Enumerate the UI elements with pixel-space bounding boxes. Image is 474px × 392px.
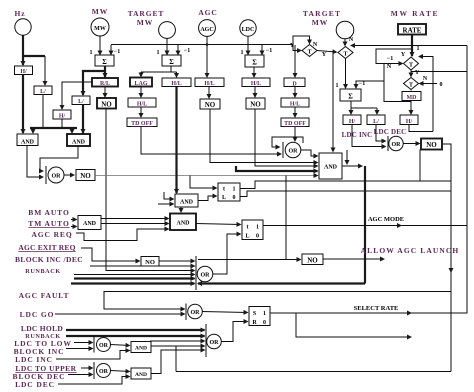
input circle TARGET MW 2 — [336, 21, 354, 39]
wire LDC GO to OR-D — [55, 313, 185, 315]
svg-text:LDC DEC: LDC DEC — [374, 128, 407, 136]
svg-text:−1: −1 — [184, 48, 190, 54]
wire bar into AND1 — [32, 128, 34, 133]
wire BLOCK INC DEC to OR-A — [90, 265, 195, 267]
svg-text:AND: AND — [21, 140, 35, 146]
svg-text:LDC: LDC — [242, 27, 255, 33]
wire LAG to H/L — [140, 87, 142, 98]
gate AND2 — [67, 134, 90, 146]
input circle TARGET MW — [159, 22, 176, 39]
block H/ a — [343, 115, 361, 125]
wire SR branch down out arrow — [296, 313, 411, 337]
svg-text:0: 0 — [256, 234, 259, 240]
wire NO ldc to AND big — [255, 109, 318, 166]
svg-text:t: t — [247, 225, 249, 231]
svg-text:0: 0 — [233, 195, 236, 201]
svg-text:T: T — [409, 63, 413, 69]
svg-text:NO: NO — [426, 141, 437, 149]
svg-text:LDC INC: LDC INC — [15, 355, 53, 364]
svg-text:AGC REQ: AGC REQ — [31, 230, 72, 239]
wire LDC INC up into AND6 — [56, 351, 130, 360]
svg-text:Hz: Hz — [15, 9, 26, 18]
wire circle 2 down to diamond T2 — [344, 39, 346, 46]
svg-text:ALLOW AGC LAUNCH: ALLOW AGC LAUNCH — [361, 246, 460, 255]
wire thick AGC mode bus down — [364, 166, 366, 284]
svg-text:0: 0 — [440, 82, 443, 88]
svg-text:MW RATE: MW RATE — [391, 9, 440, 18]
wire H/L to TD OFF — [140, 107, 142, 117]
block NO monitor — [97, 98, 116, 109]
wire LDC TO UPPER to OR-H — [81, 367, 93, 369]
svg-text:MW: MW — [312, 18, 328, 27]
wire MD down to H/ — [410, 101, 412, 115]
gate OR-A — [195, 256, 197, 290]
wire into NO6 — [198, 259, 301, 261]
block NO small — [141, 257, 159, 267]
wire D to H/L — [294, 87, 296, 98]
svg-text:LDC GO: LDC GO — [20, 310, 55, 319]
wire MW to sum — [99, 36, 101, 55]
svg-text:L/: L/ — [373, 119, 379, 125]
wire SR out and select rate tee — [270, 312, 451, 314]
block H/ b — [400, 115, 418, 125]
wire T3 to T4 — [410, 70, 412, 77]
input circle MW — [91, 18, 109, 36]
memory box1 up/down latch — [218, 183, 240, 201]
gate AND7 — [131, 368, 151, 379]
svg-text:N: N — [423, 76, 428, 82]
svg-text:AGC EXIT REQ: AGC EXIT REQ — [18, 243, 75, 252]
wire OR-C to AND big — [301, 150, 318, 156]
wire Hz down trunk — [22, 35, 24, 65]
gate OR-F — [387, 136, 389, 151]
block H/L first — [162, 78, 191, 87]
svg-text:TM AUTO: TM AUTO — [28, 219, 69, 228]
svg-text:Σ: Σ — [252, 59, 257, 67]
gate AND4 — [78, 216, 101, 230]
svg-text:OR: OR — [52, 174, 62, 180]
block LAG — [130, 78, 152, 87]
svg-text:NO: NO — [307, 257, 318, 265]
gate AND5 bold — [170, 214, 196, 231]
wire TD OFF long route to OR — [141, 127, 281, 155]
wire T2 out down to sum4 — [345, 59, 347, 89]
wire AGC FAULT thick to OR-A — [71, 282, 195, 284]
svg-text:Σ: Σ — [102, 58, 107, 66]
switch diamond T2 — [338, 47, 353, 59]
svg-text:AND: AND — [180, 200, 194, 206]
svg-text:AND: AND — [72, 140, 86, 146]
wire to NO ldc — [254, 87, 256, 98]
svg-text:1: 1 — [256, 225, 259, 231]
svg-text:T: T — [409, 83, 413, 89]
wire OR-F to NO5 — [403, 143, 420, 145]
wire tee down to bottom bus — [175, 346, 177, 372]
wire target mw to sum2 — [166, 39, 168, 55]
block L/ (Hz low limit) — [34, 86, 52, 95]
wire RATE thick down to T3 — [411, 35, 413, 57]
wire feedback right of T3 — [419, 57, 433, 132]
svg-text:N: N — [313, 42, 318, 48]
svg-text:OR: OR — [210, 340, 220, 346]
svg-text:1: 1 — [241, 50, 244, 56]
svg-text:1: 1 — [157, 50, 160, 56]
block H/L ldc — [242, 78, 270, 87]
wire far right bus feedback into T2 — [351, 45, 467, 47]
wire T4 to MD — [410, 90, 412, 91]
svg-text:LDC DEC: LDC DEC — [15, 380, 55, 389]
wire thick input4 of AND big — [236, 166, 318, 171]
gate OR-D — [185, 304, 187, 321]
wire L/ down — [42, 95, 44, 129]
wire NO long line to AND input 5 — [95, 175, 318, 177]
svg-text:BM AUTO: BM AUTO — [28, 208, 69, 217]
block NO 5 — [421, 139, 442, 150]
wire AND6 out to OR-E — [151, 345, 205, 347]
gate AND3 small — [175, 194, 198, 207]
svg-text:H/: H/ — [406, 119, 413, 125]
svg-text:MW: MW — [137, 18, 153, 27]
svg-text:Y: Y — [415, 70, 420, 76]
wire H/ to AND — [22, 75, 24, 134]
wire H/ b feedback to T3 loop — [409, 125, 433, 132]
wire OR-E to R input of SR — [221, 322, 248, 342]
svg-text:−1: −1 — [114, 49, 120, 55]
svg-text:OR: OR — [289, 149, 299, 155]
wire feedback loop OR-C — [272, 137, 303, 147]
summer sum3 — [245, 55, 264, 67]
wire AND3 down into AND5 — [180, 207, 182, 212]
wire -1 feedback into sum1 — [110, 45, 112, 55]
svg-text:LAG: LAG — [134, 81, 147, 87]
svg-text:AND: AND — [324, 165, 338, 171]
wire trunk into D — [294, 45, 296, 77]
svg-text:L/: L/ — [78, 99, 84, 105]
svg-text:L: L — [222, 195, 226, 201]
block L/ second — [72, 96, 90, 105]
wire H/L to NO — [208, 87, 210, 99]
gate AND6 — [131, 342, 151, 353]
svg-text:MW: MW — [94, 26, 106, 32]
wire AGC MODE arrow overlay — [380, 225, 401, 227]
gate OR-H — [93, 362, 95, 379]
svg-text:OR: OR — [99, 369, 109, 375]
block RATE — [398, 24, 426, 35]
svg-text:TARGET: TARGET — [303, 9, 341, 18]
wire AND5 to box2 — [196, 224, 241, 225]
svg-text:AND: AND — [135, 346, 147, 352]
svg-text:OR: OR — [392, 142, 402, 148]
svg-text:RUNBACK: RUNBACK — [25, 268, 60, 275]
wire BLOCK INC to OR-G — [66, 348, 93, 350]
wire T3 tee right to far bus — [411, 71, 467, 73]
svg-text:−1: −1 — [387, 56, 393, 62]
wire L/ a to OR-F — [376, 125, 386, 142]
block NO after OR — [76, 170, 95, 181]
svg-text:SELECT RATE: SELECT RATE — [354, 305, 399, 312]
wire OR-E input 3 — [150, 340, 205, 342]
wire AGC down — [206, 37, 208, 78]
svg-text:MW: MW — [92, 7, 108, 16]
svg-text:1: 1 — [417, 46, 420, 52]
block H/ (Hz high limit) — [15, 66, 33, 75]
wire RATE loop into T3 -1 N input — [376, 49, 412, 64]
wire thick cross bar — [30, 127, 77, 129]
wire LDC HOLD thick to OR-E — [66, 329, 205, 331]
wire OR-H to AND7 — [111, 371, 130, 372]
wire BLOCK DEC to OR-H — [68, 374, 93, 376]
wire NO small to OR-A — [159, 260, 195, 262]
block H/ third — [53, 110, 71, 119]
svg-text:AGC MODE: AGC MODE — [368, 216, 404, 223]
wire H/ out to cross bar — [61, 119, 63, 128]
wire RUNBACK thick to OR-A — [74, 274, 195, 276]
wire AGC REQ route — [76, 229, 169, 241]
wire BM AUTO in — [71, 219, 77, 221]
svg-text:Y: Y — [322, 52, 327, 58]
wire AND4 to AND5 two lines — [101, 218, 169, 220]
wire AND7 out riser to OR-E — [151, 350, 205, 374]
svg-text:OR: OR — [99, 343, 109, 349]
svg-text:N: N — [387, 64, 392, 70]
wire far right bus — [451, 46, 467, 314]
wire NO long drop to OR gate below — [106, 109, 195, 271]
svg-text:OR: OR — [201, 273, 211, 279]
wire main horizontal trunk — [111, 44, 293, 46]
block NO6 — [302, 254, 323, 265]
svg-text:AGC: AGC — [200, 27, 213, 33]
svg-text:H/L: H/L — [137, 102, 147, 108]
svg-text:NO: NO — [80, 172, 91, 180]
wire tee from T line down into AND big top — [332, 52, 334, 151]
wire R/L to NO — [104, 87, 106, 98]
svg-text:0: 0 — [263, 320, 266, 326]
svg-text:AND: AND — [83, 221, 97, 227]
svg-text:Σ: Σ — [169, 58, 174, 66]
svg-text:R/L: R/L — [100, 81, 110, 87]
svg-text:OR: OR — [191, 310, 201, 316]
wire OR-D to SR latch — [202, 312, 248, 313]
svg-text:R: R — [252, 320, 257, 326]
wire allow agc launch bus — [450, 263, 452, 272]
wire box1 lower out bus — [240, 191, 451, 197]
svg-text:TARGET: TARGET — [128, 9, 165, 18]
wire OR to NO — [64, 174, 74, 176]
svg-text:Y: Y — [401, 52, 406, 58]
svg-text:H/: H/ — [59, 114, 66, 120]
wire NO6 allow agc launch arrow — [323, 258, 384, 260]
wire LDC down to sum3 — [247, 36, 249, 54]
svg-text:−1: −1 — [266, 48, 272, 54]
gate AND1 — [17, 134, 38, 146]
svg-text:LDC HOLD: LDC HOLD — [21, 324, 63, 333]
svg-text:1: 1 — [263, 311, 266, 317]
switch diamond T3 — [404, 57, 419, 70]
summer sum4 — [340, 89, 361, 101]
svg-text:AND: AND — [177, 221, 191, 227]
svg-text:−1: −1 — [359, 81, 365, 87]
gate OR-E — [205, 324, 207, 357]
svg-text:T: T — [307, 50, 311, 56]
wire RUNBACK 2 thick to OR-E — [66, 335, 205, 337]
svg-text:BLOCK INC /DEC: BLOCK INC /DEC — [15, 255, 83, 264]
svg-text:AND: AND — [135, 372, 147, 378]
svg-text:H/: H/ — [349, 119, 356, 125]
gate AND big — [319, 153, 342, 179]
wire -1 feedback into sum2 — [177, 45, 179, 55]
wire branch down to L/ — [44, 56, 46, 85]
block NO ldc — [246, 98, 265, 109]
svg-text:t: t — [223, 187, 225, 193]
gate OR-C — [282, 142, 284, 158]
wire 0 input into T4 — [420, 83, 438, 85]
svg-text:TD OFF: TD OFF — [131, 121, 153, 127]
block L/ a — [367, 115, 385, 125]
block H/L agc — [195, 78, 224, 87]
block D deadband — [284, 78, 305, 87]
wire TM AUTO in — [71, 226, 77, 228]
block TD OFF 2 — [281, 118, 309, 127]
wire tap to H/ block — [62, 82, 92, 109]
wire input top row box1 — [190, 176, 217, 189]
svg-text:AGC FAULT: AGC FAULT — [19, 291, 70, 300]
svg-text:1: 1 — [90, 50, 93, 56]
block TD OFF timer — [127, 118, 157, 127]
wire inputs AND3 — [164, 192, 174, 199]
wire NO5 out to right bus — [442, 144, 451, 372]
wire AND1 to OR — [27, 146, 43, 178]
wire box2 out long right AGC MODE — [263, 225, 467, 227]
svg-text:TD OFF: TD OFF — [284, 121, 306, 127]
wire Hz branch right — [23, 55, 45, 57]
svg-text:L/: L/ — [40, 89, 46, 95]
summer sum1 — [95, 55, 114, 66]
block H/L d — [281, 98, 309, 107]
gate OR-G — [93, 337, 95, 353]
svg-text:NO: NO — [101, 101, 112, 109]
svg-text:H/L: H/L — [290, 102, 300, 108]
wire H/ a to OR-F — [352, 125, 386, 147]
gate OR left — [45, 166, 47, 184]
wire trunk up-over loop into diamond T1 — [293, 36, 310, 45]
wire L/ to AND2 — [82, 105, 84, 134]
wire feedback long left to OR-D — [104, 292, 451, 310]
svg-text:Y: Y — [290, 43, 295, 49]
svg-text:H/L: H/L — [204, 81, 214, 87]
wire AGC EXIT REQ to NO — [81, 248, 140, 261]
wire NO agc to AND big — [210, 109, 318, 163]
svg-text:T: T — [343, 52, 347, 58]
switch diamond T4 — [404, 78, 419, 90]
summer sum2 — [162, 55, 181, 66]
wire sum2 split — [170, 66, 172, 72]
wire AND3 out to memory box1 — [198, 196, 217, 201]
svg-text:NO: NO — [145, 259, 155, 266]
wire drop to NO6 — [285, 176, 287, 260]
wire T1 to T2 — [317, 51, 337, 53]
svg-text:AGC: AGC — [198, 8, 217, 17]
wire H/L to TD OFF 2 — [294, 107, 296, 117]
wire bar into AND2 — [71, 128, 73, 133]
svg-text:L: L — [245, 234, 249, 240]
wire thick bus into OR-A from right — [198, 282, 365, 284]
svg-text:1: 1 — [336, 83, 339, 89]
block R/L rate limiter — [92, 78, 118, 87]
wire AND big out to mode bus — [342, 165, 362, 167]
input circle LDC — [240, 20, 256, 36]
svg-text:LDC INC: LDC INC — [342, 131, 373, 139]
wire AND2 to OR — [40, 146, 78, 171]
wire box1 out to long bus right — [240, 181, 451, 189]
svg-text:H/L: H/L — [171, 81, 181, 87]
svg-text:RATE: RATE — [403, 27, 422, 35]
svg-text:H/: H/ — [20, 69, 27, 75]
latch SR box — [249, 307, 270, 326]
svg-text:H/L: H/L — [251, 81, 261, 87]
wire sum4 split to H/ and L/ — [350, 101, 352, 108]
switch diamond T1 — [302, 45, 317, 57]
wire H/L thick drop to AND3 — [175, 87, 177, 194]
svg-text:NO: NO — [250, 101, 261, 109]
wire NO5 left drop to bus — [419, 150, 421, 182]
wire MD column feedback to sum4 -1 — [384, 64, 411, 102]
input circle Hz — [15, 19, 31, 35]
wire stub join from above — [346, 150, 348, 164]
svg-text:N: N — [349, 37, 354, 43]
block MD — [402, 92, 421, 101]
wire sum3 to H/L — [253, 67, 255, 77]
block H/L below lag — [128, 98, 156, 107]
wire OR-G to AND6 — [111, 345, 130, 346]
wire TD OFF 2 into OR-C — [294, 127, 296, 142]
block NO agc — [200, 99, 220, 109]
svg-text:NO: NO — [205, 101, 216, 109]
memory box2 up/down latch — [242, 220, 263, 240]
svg-text:MD: MD — [407, 95, 418, 101]
wire -1 feedback into sum3 — [261, 45, 263, 55]
wire OR-A up to memory box2 — [213, 234, 241, 274]
wire LDC DEC into AND7 — [58, 377, 130, 385]
svg-text:1: 1 — [233, 187, 236, 193]
svg-text:Σ: Σ — [348, 93, 353, 101]
wire sum1 branch left — [83, 71, 105, 95]
wire LDC TO LOW to OR-G — [74, 342, 93, 344]
wire bottom long bus — [176, 371, 451, 373]
input circle AGC — [199, 20, 216, 37]
wire sum1 to R/L — [104, 66, 106, 77]
